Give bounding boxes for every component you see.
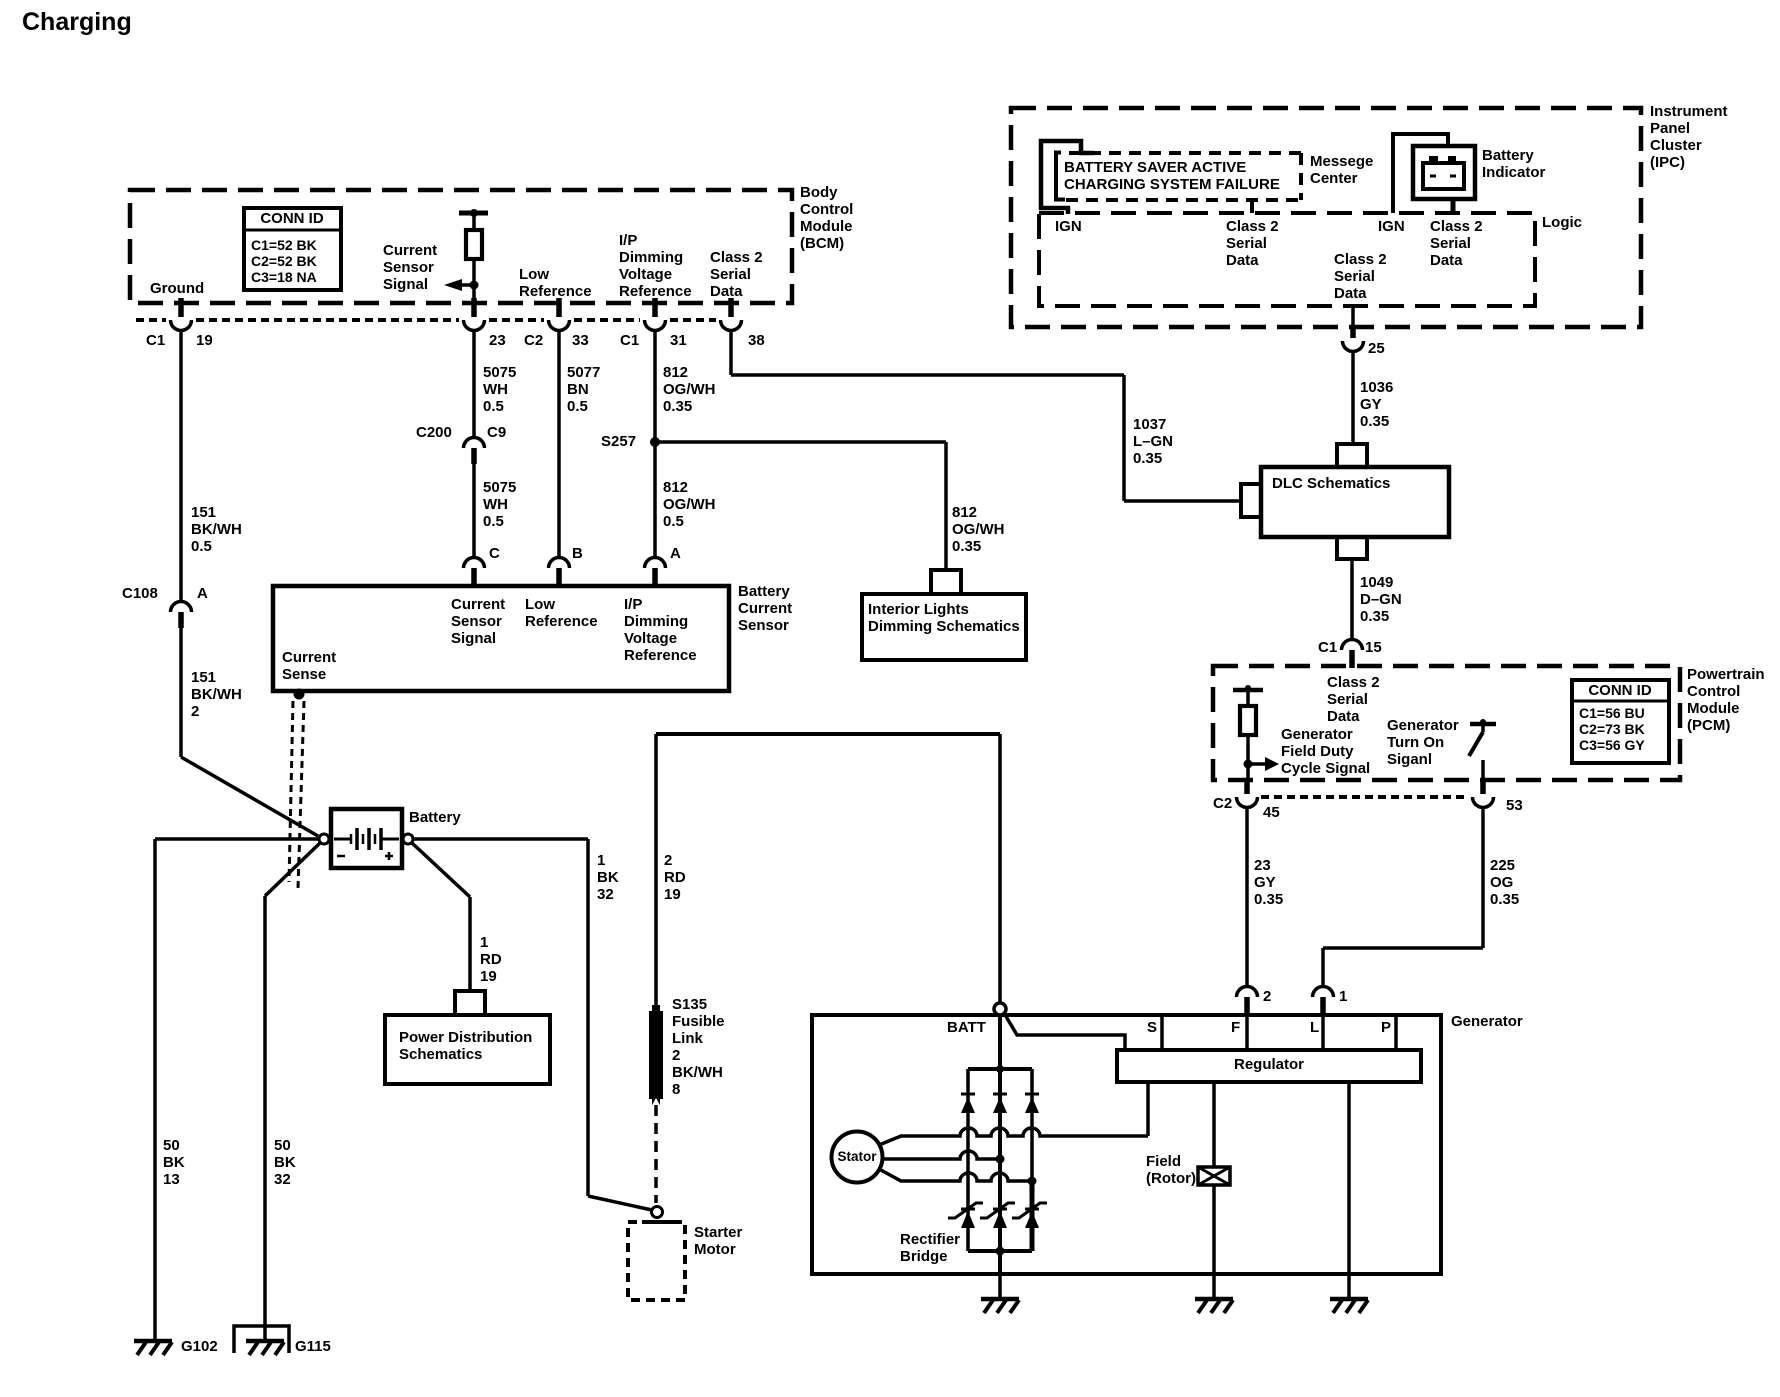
- svg-text:Voltage: Voltage: [619, 266, 672, 283]
- svg-text:0.35: 0.35: [1133, 450, 1162, 467]
- svg-text:Cluster: Cluster: [1650, 137, 1702, 154]
- svg-text:Field: Field: [1146, 1153, 1181, 1170]
- svg-text:Current: Current: [383, 242, 437, 259]
- svg-text:B: B: [572, 545, 583, 562]
- svg-text:C1: C1: [146, 332, 165, 349]
- svg-text:Current: Current: [282, 649, 336, 666]
- svg-text:Data: Data: [1334, 285, 1367, 302]
- svg-text:Battery: Battery: [409, 809, 461, 826]
- svg-text:DLC Schematics: DLC Schematics: [1272, 475, 1390, 492]
- svg-text:D–GN: D–GN: [1360, 591, 1402, 608]
- svg-text:2: 2: [1263, 988, 1271, 1005]
- svg-text:Class 2: Class 2: [710, 249, 763, 266]
- svg-text:31: 31: [670, 332, 687, 349]
- svg-text:Class 2: Class 2: [1430, 218, 1483, 235]
- svg-text:L–GN: L–GN: [1133, 433, 1173, 450]
- svg-text:Data: Data: [1226, 252, 1259, 269]
- svg-text:Panel: Panel: [1650, 120, 1690, 137]
- svg-text:Indicator: Indicator: [1482, 164, 1546, 181]
- svg-text:Data: Data: [1430, 252, 1463, 269]
- svg-text:C1=52 BK: C1=52 BK: [251, 237, 317, 253]
- svg-text:0.35: 0.35: [1360, 413, 1389, 430]
- svg-text:BK: BK: [274, 1154, 296, 1171]
- svg-text:C3=18 NA: C3=18 NA: [251, 269, 317, 285]
- svg-text:23: 23: [1254, 857, 1271, 874]
- svg-text:(BCM): (BCM): [800, 235, 844, 252]
- svg-text:Stator: Stator: [837, 1149, 877, 1164]
- svg-text:IGN: IGN: [1055, 218, 1082, 235]
- svg-text:Powertrain: Powertrain: [1687, 666, 1765, 683]
- svg-text:Reference: Reference: [619, 283, 692, 300]
- svg-text:1: 1: [597, 852, 605, 869]
- svg-text:19: 19: [196, 332, 213, 349]
- svg-text:0.35: 0.35: [1490, 891, 1519, 908]
- svg-text:C1: C1: [620, 332, 639, 349]
- svg-text:0.5: 0.5: [567, 398, 588, 415]
- svg-text:(Rotor): (Rotor): [1146, 1170, 1196, 1187]
- svg-text:0.5: 0.5: [663, 513, 684, 530]
- svg-text:Signal: Signal: [383, 276, 428, 293]
- svg-text:Battery: Battery: [738, 583, 790, 600]
- svg-text:25: 25: [1368, 340, 1385, 357]
- svg-text:OG/WH: OG/WH: [663, 381, 716, 398]
- svg-text:C9: C9: [487, 424, 506, 441]
- svg-text:I/P: I/P: [619, 232, 637, 249]
- svg-text:2: 2: [191, 703, 199, 720]
- svg-text:Class 2: Class 2: [1327, 674, 1380, 691]
- svg-text:GY: GY: [1360, 396, 1382, 413]
- svg-text:Serial: Serial: [1334, 268, 1375, 285]
- svg-text:0.35: 0.35: [1254, 891, 1283, 908]
- svg-text:BK/WH: BK/WH: [191, 521, 242, 538]
- svg-text:1: 1: [1339, 988, 1347, 1005]
- svg-text:S257: S257: [601, 433, 636, 450]
- svg-text:A: A: [670, 545, 681, 562]
- svg-text:53: 53: [1506, 797, 1523, 814]
- svg-text:WH: WH: [483, 496, 508, 513]
- svg-text:BK/WH: BK/WH: [191, 686, 242, 703]
- svg-text:G102: G102: [181, 1338, 218, 1355]
- svg-text:2: 2: [664, 852, 672, 869]
- svg-text:5075: 5075: [483, 364, 516, 381]
- svg-text:CONN ID: CONN ID: [1588, 682, 1652, 699]
- svg-text:OG/WH: OG/WH: [663, 496, 716, 513]
- svg-text:0.35: 0.35: [1360, 608, 1389, 625]
- svg-text:A: A: [197, 585, 208, 602]
- svg-text:Turn On: Turn On: [1387, 734, 1444, 751]
- svg-text:C2=73 BK: C2=73 BK: [1579, 721, 1645, 737]
- svg-text:C1: C1: [1318, 639, 1337, 656]
- svg-text:Instrument: Instrument: [1650, 103, 1728, 120]
- svg-text:BK: BK: [163, 1154, 185, 1171]
- svg-text:Serial: Serial: [710, 266, 751, 283]
- svg-text:0.5: 0.5: [483, 398, 504, 415]
- svg-text:Control: Control: [1687, 683, 1740, 700]
- svg-text:Regulator: Regulator: [1234, 1056, 1304, 1073]
- svg-text:Data: Data: [710, 283, 743, 300]
- svg-text:I/P: I/P: [624, 596, 642, 613]
- svg-text:OG: OG: [1490, 874, 1513, 891]
- svg-text:Charging: Charging: [22, 8, 132, 36]
- svg-text:BATT: BATT: [947, 1019, 986, 1036]
- svg-text:Class 2: Class 2: [1226, 218, 1279, 235]
- svg-text:812: 812: [952, 504, 977, 521]
- svg-text:32: 32: [274, 1171, 291, 1188]
- svg-text:Reference: Reference: [519, 283, 592, 300]
- svg-text:Dimming Schematics: Dimming Schematics: [868, 618, 1020, 635]
- svg-text:Class 2: Class 2: [1334, 251, 1387, 268]
- svg-text:Rectifier: Rectifier: [900, 1231, 960, 1248]
- svg-text:C108: C108: [122, 585, 158, 602]
- svg-text:812: 812: [663, 479, 688, 496]
- svg-text:151: 151: [191, 669, 216, 686]
- svg-text:RD: RD: [664, 869, 686, 886]
- svg-text:1: 1: [480, 934, 488, 951]
- svg-text:Generator: Generator: [1387, 717, 1459, 734]
- svg-text:C2: C2: [524, 332, 543, 349]
- svg-text:Bridge: Bridge: [900, 1248, 948, 1265]
- svg-text:0.35: 0.35: [952, 538, 981, 555]
- svg-text:OG/WH: OG/WH: [952, 521, 1005, 538]
- svg-text:BK/WH: BK/WH: [672, 1064, 723, 1081]
- svg-text:Low: Low: [525, 596, 555, 613]
- svg-text:32: 32: [597, 886, 614, 903]
- svg-text:Data: Data: [1327, 708, 1360, 725]
- svg-text:Signal: Signal: [451, 630, 496, 647]
- svg-text:C2: C2: [1213, 795, 1232, 812]
- svg-text:L: L: [1310, 1019, 1319, 1036]
- svg-text:Serial: Serial: [1327, 691, 1368, 708]
- svg-text:Generator: Generator: [1451, 1013, 1523, 1030]
- svg-text:Voltage: Voltage: [624, 630, 677, 647]
- svg-text:Serial: Serial: [1430, 235, 1471, 252]
- svg-text:Battery: Battery: [1482, 147, 1534, 164]
- svg-text:Sensor: Sensor: [738, 617, 789, 634]
- svg-text:50: 50: [274, 1137, 291, 1154]
- svg-text:50: 50: [163, 1137, 180, 1154]
- svg-text:8: 8: [672, 1081, 680, 1098]
- svg-text:Dimming: Dimming: [624, 613, 688, 630]
- svg-text:0.5: 0.5: [483, 513, 504, 530]
- svg-text:Sensor: Sensor: [383, 259, 434, 276]
- svg-text:Dimming: Dimming: [619, 249, 683, 266]
- svg-text:5075: 5075: [483, 479, 516, 496]
- svg-text:S135: S135: [672, 996, 707, 1013]
- svg-text:0.5: 0.5: [191, 538, 212, 555]
- svg-text:0.35: 0.35: [663, 398, 692, 415]
- svg-text:CHARGING SYSTEM FAILURE: CHARGING SYSTEM FAILURE: [1064, 176, 1280, 193]
- svg-text:Sensor: Sensor: [451, 613, 502, 630]
- svg-text:Link: Link: [672, 1030, 703, 1047]
- svg-text:19: 19: [480, 968, 497, 985]
- svg-text:BATTERY SAVER ACTIVE: BATTERY SAVER ACTIVE: [1064, 159, 1246, 176]
- svg-text:S: S: [1147, 1019, 1157, 1036]
- svg-text:IGN: IGN: [1378, 218, 1405, 235]
- svg-text:GY: GY: [1254, 874, 1276, 891]
- svg-text:CONN ID: CONN ID: [260, 210, 324, 227]
- svg-text:C2=52 BK: C2=52 BK: [251, 253, 317, 269]
- svg-text:Reference: Reference: [624, 647, 697, 664]
- svg-text:225: 225: [1490, 857, 1515, 874]
- svg-text:P: P: [1381, 1019, 1391, 1036]
- svg-text:Current: Current: [738, 600, 792, 617]
- svg-text:15: 15: [1365, 639, 1382, 656]
- svg-text:Siganl: Siganl: [1387, 751, 1432, 768]
- svg-text:Messege: Messege: [1310, 153, 1373, 170]
- svg-text:Cycle Signal: Cycle Signal: [1281, 760, 1370, 777]
- svg-text:Schematics: Schematics: [399, 1046, 482, 1063]
- svg-text:Serial: Serial: [1226, 235, 1267, 252]
- svg-text:38: 38: [748, 332, 765, 349]
- svg-text:F: F: [1231, 1019, 1240, 1036]
- svg-text:Reference: Reference: [525, 613, 598, 630]
- svg-text:BN: BN: [567, 381, 589, 398]
- svg-text:Power Distribution: Power Distribution: [399, 1029, 532, 1046]
- svg-text:C200: C200: [416, 424, 452, 441]
- svg-text:45: 45: [1263, 804, 1280, 821]
- svg-text:RD: RD: [480, 951, 502, 968]
- svg-text:Center: Center: [1310, 170, 1358, 187]
- svg-text:Motor: Motor: [694, 1241, 736, 1258]
- svg-text:Low: Low: [519, 266, 549, 283]
- svg-text:Body: Body: [800, 184, 838, 201]
- svg-text:Generator: Generator: [1281, 726, 1353, 743]
- svg-text:Field Duty: Field Duty: [1281, 743, 1354, 760]
- svg-text:13: 13: [163, 1171, 180, 1188]
- svg-text:1036: 1036: [1360, 379, 1393, 396]
- svg-text:Current: Current: [451, 596, 505, 613]
- svg-text:Interior Lights: Interior Lights: [868, 601, 969, 618]
- svg-text:33: 33: [572, 332, 589, 349]
- svg-text:Module: Module: [800, 218, 853, 235]
- svg-text:Module: Module: [1687, 700, 1740, 717]
- svg-text:151: 151: [191, 504, 216, 521]
- svg-text:G115: G115: [295, 1338, 331, 1355]
- svg-text:WH: WH: [483, 381, 508, 398]
- svg-text:Starter: Starter: [694, 1224, 743, 1241]
- svg-text:Logic: Logic: [1542, 214, 1582, 231]
- svg-text:Sense: Sense: [282, 666, 326, 683]
- svg-text:Fusible: Fusible: [672, 1013, 725, 1030]
- svg-text:BK: BK: [597, 869, 619, 886]
- svg-text:C: C: [489, 545, 500, 562]
- svg-text:C1=56 BU: C1=56 BU: [1579, 705, 1645, 721]
- svg-text:1037: 1037: [1133, 416, 1166, 433]
- svg-text:812: 812: [663, 364, 688, 381]
- svg-text:1049: 1049: [1360, 574, 1393, 591]
- svg-text:19: 19: [664, 886, 681, 903]
- svg-text:(IPC): (IPC): [1650, 154, 1685, 171]
- svg-text:Control: Control: [800, 201, 853, 218]
- svg-text:2: 2: [672, 1047, 680, 1064]
- svg-text:Ground: Ground: [150, 280, 204, 297]
- svg-text:5077: 5077: [567, 364, 600, 381]
- svg-text:(PCM): (PCM): [1687, 717, 1730, 734]
- svg-text:C3=56 GY: C3=56 GY: [1579, 737, 1645, 753]
- svg-text:23: 23: [489, 332, 506, 349]
